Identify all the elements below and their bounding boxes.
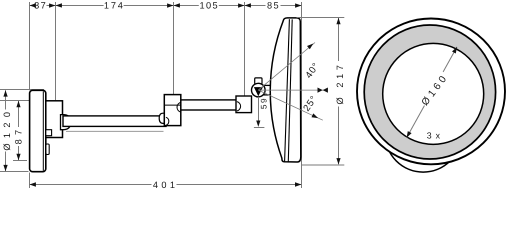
svg-text:85: 85 (267, 0, 280, 10)
svg-text:174: 174 (104, 0, 125, 10)
hinge knuckle at mount block (61, 115, 71, 130)
arm tube 2 (179, 100, 237, 110)
elbow knuckle arc left (166, 117, 169, 125)
elbow joint block (164, 95, 181, 126)
ball fitting block (236, 96, 252, 113)
ball joint section wedge (254, 87, 263, 96)
mirror disc side view (270, 18, 301, 162)
mirror ring (364, 25, 495, 159)
extension line x1 (55, 2, 57, 100)
extension line x2 (173, 2, 175, 94)
elbow divider (164, 104, 181, 106)
svg-text:87: 87 (14, 126, 24, 145)
mirror outer circle (357, 19, 505, 165)
svg-text:3 x: 3 x (427, 131, 441, 141)
ext line D217 bottom (302, 164, 344, 166)
ball socket on mirror back (264, 85, 272, 95)
svg-text:Ø 217: Ø 217 (335, 61, 345, 104)
top dim arrows (30, 3, 36, 7)
fitting knuckle arc (237, 102, 241, 111)
ext line 87 bottom (13, 160, 27, 162)
25 deg ray (258, 90, 323, 120)
wall plate face line (42, 91, 44, 171)
ext line 401 left (29, 173, 31, 189)
extension line x3 (244, 2, 246, 96)
dim line D160 (407, 47, 457, 138)
mount block notch (46, 130, 52, 136)
elbow knuckle arc right (177, 102, 181, 112)
dim line D120 (5, 90, 7, 109)
ext line 87 top (0, 100, 46, 102)
horizontal reference line (258, 89, 326, 91)
extension line x0 (29, 2, 31, 90)
ext line D120 bottom (0, 171, 29, 173)
top dimension line (30, 5, 302, 7)
mount bump behind mirror (385, 96, 461, 172)
svg-text:105: 105 (200, 0, 220, 10)
svg-text:401: 401 (153, 180, 179, 190)
dim line 87 (18, 101, 20, 127)
mirror glass circle (383, 43, 484, 144)
bottom dimension line 401 (30, 184, 302, 186)
svg-text:59: 59 (259, 97, 268, 109)
ball joint (251, 83, 265, 97)
arm lower gray line (66, 130, 164, 132)
wall plate (30, 90, 46, 171)
label D160 (419, 71, 451, 108)
ext line D120 top (0, 89, 44, 91)
svg-text:Ø120: Ø120 (2, 107, 12, 151)
disc rim line B (288, 19, 292, 161)
dim line D217 (338, 18, 340, 61)
ext line 59 bottom (254, 127, 265, 129)
tube1 end collar (159, 113, 164, 123)
arm tube 1 (63, 116, 166, 127)
ball joint nub (255, 78, 262, 84)
plate bump (46, 144, 49, 155)
disc rim line A (285, 19, 290, 161)
extension line x4 (301, 2, 303, 188)
ext line D217 top (297, 17, 345, 19)
mount block (46, 101, 63, 138)
40 deg ray (258, 43, 315, 91)
dim 59 line (258, 97, 260, 121)
svg-text:37: 37 (34, 0, 47, 10)
bowtie arrows on reference line (318, 88, 323, 93)
